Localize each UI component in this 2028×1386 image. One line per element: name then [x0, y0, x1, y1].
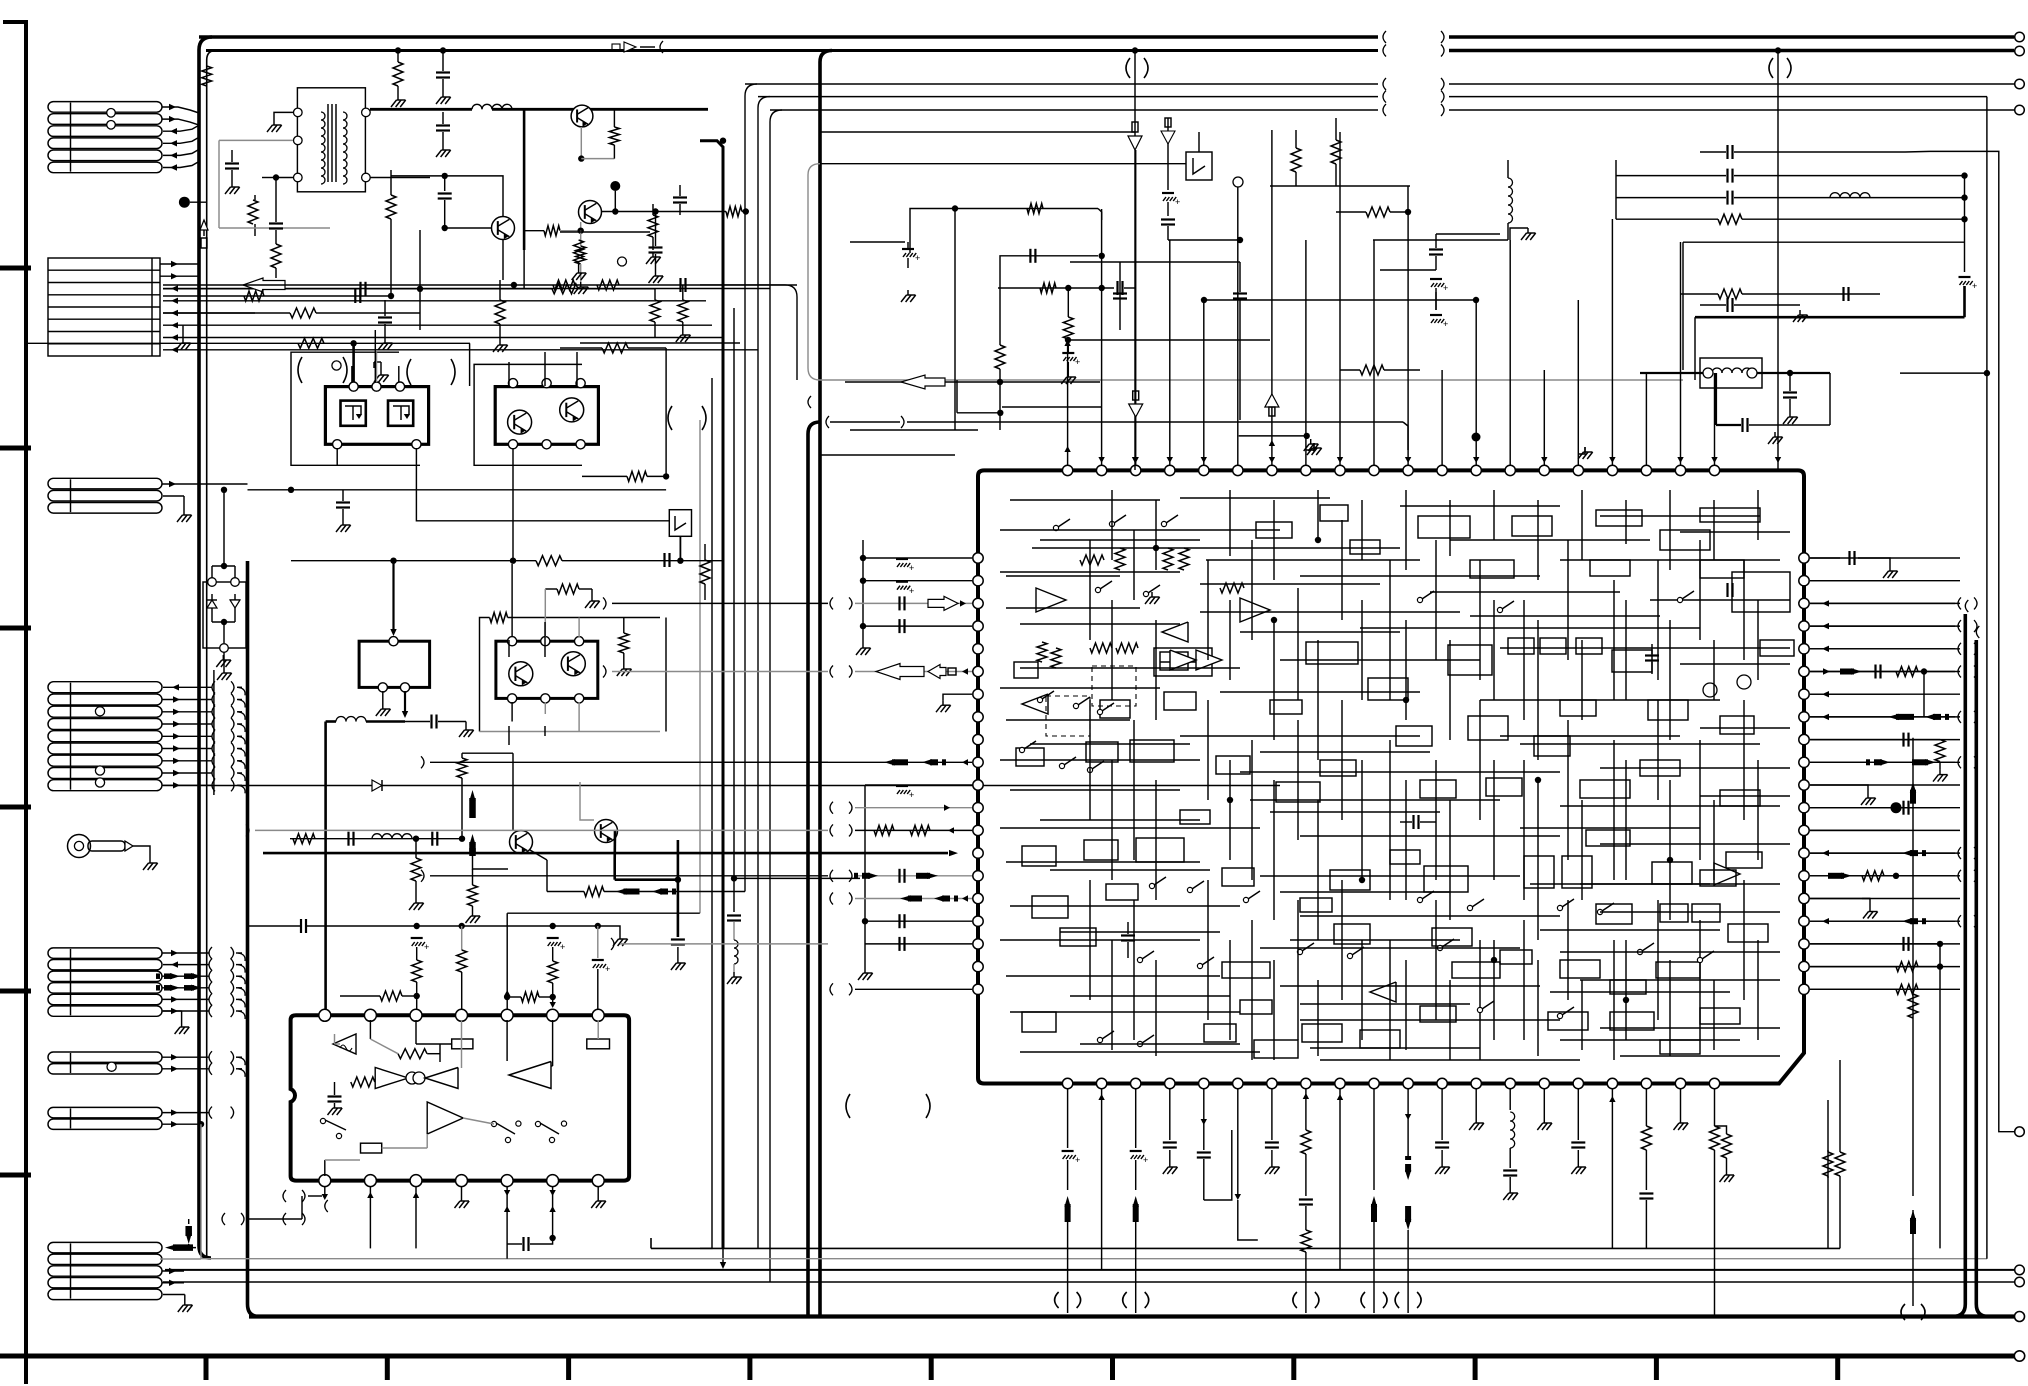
bottom ruler tick 3 [566, 1356, 571, 1380]
top mid v1408 [1407, 186, 1409, 212]
U1 internal wire h17 [1180, 735, 1420, 737]
CN4 wire 2 [162, 699, 212, 701]
U1 internal block 64 [1452, 962, 1500, 978]
U1 mesh wire v59 [1713, 980, 1715, 1050]
U2 bottom pin 5 [501, 1175, 513, 1187]
U1 internal block 10 [1306, 642, 1358, 664]
top bus V1 thick [199, 35, 1378, 39]
U1 switch x2 [1143, 591, 1148, 596]
top right xfmr box [1700, 358, 1762, 388]
block D pin b3 [575, 694, 584, 703]
U1 left pin row11 wire [865, 784, 972, 786]
U1 top pin 18 [1641, 465, 1651, 475]
U1 internal wire h45 [1620, 1055, 1780, 1057]
U2 switch 2 [491, 1121, 496, 1126]
top right v1830 [1829, 373, 1831, 425]
U1 switch 5 [1073, 703, 1078, 708]
U2 amp left [375, 1068, 408, 1089]
U1 left pin 16 [973, 893, 983, 903]
band wire h300 [1204, 299, 1476, 301]
U1 right pin 19 chain [1810, 966, 1940, 968]
U1 left pin 14 [973, 848, 983, 858]
U1 top pin 13 arrow [1473, 457, 1479, 463]
CN4 wire 8 cont [231, 767, 234, 779]
U1 switch 9 [1087, 767, 1092, 772]
U2 feed thick vertical [324, 722, 327, 1011]
wire v513 [512, 753, 514, 831]
U1 mesh wire v6 [1361, 500, 1363, 560]
U1 internal wire v12 [1613, 580, 1615, 700]
U2 bottom pin 1 [319, 1175, 331, 1187]
misc res v705 upper [700, 560, 710, 584]
U1 switch 21 [1437, 945, 1442, 950]
U1 internal wire h11 [1020, 667, 1240, 669]
U1 internal wire h9 [1360, 627, 1700, 629]
U1 mesh wire h23 [1520, 827, 1700, 829]
U1 dashed switch box 1 [1092, 666, 1136, 706]
right thick vertical 2 [1976, 640, 1988, 1317]
U1 bottom pin 2 wire [1101, 1089, 1103, 1110]
U1 bottom pin 18 wire [1645, 1089, 1647, 1110]
wire h343 [26, 342, 470, 344]
PS res R5 [609, 127, 619, 145]
bottom bus B [165, 1269, 2014, 1271]
U1 internal wire h12 [1280, 659, 1480, 661]
bottom bus C [163, 1281, 2014, 1283]
CN5 wire 4 cont [231, 982, 234, 994]
PS dot1 [417, 286, 423, 292]
left feed wire 2 [612, 671, 828, 673]
U1 mesh wire h3 [1400, 505, 1560, 507]
U1 res 1 [1080, 555, 1104, 565]
U1 top pin 10 [1369, 465, 1379, 475]
gnd 653 [652, 252, 654, 257]
U1 right pin 17 wire [1810, 920, 1960, 922]
U2 switch 1 [320, 1118, 325, 1123]
U1 junction dot 10 [1315, 537, 1321, 543]
CN2 wire 6 [163, 324, 712, 326]
bottom ruler tick 2 [385, 1356, 390, 1380]
U1 internal wire h25 [1000, 827, 1260, 829]
res h343 [298, 338, 324, 348]
PS res R4 vertical [386, 195, 396, 219]
CN6 wire 2 [162, 1068, 209, 1070]
U1 mesh wire v55 [1537, 960, 1539, 1056]
U1 internal wire v34 [1251, 920, 1253, 1060]
U1 mesh wire v29 [1713, 640, 1715, 700]
U1 mesh wire h8 [1680, 531, 1790, 533]
block B paren pair [668, 406, 672, 430]
U1 res 5 [1037, 642, 1047, 662]
svg-text:+: + [1075, 357, 1080, 367]
CN1 wire 3 [163, 125, 199, 131]
top mid v1778 [1777, 51, 1779, 471]
key jack inner [74, 841, 83, 850]
U1 top pin 10 wire [1373, 240, 1375, 465]
U1 left pin 9 [973, 734, 983, 744]
U1 internal block 34 [1486, 778, 1522, 796]
CN1 wire 5 [163, 149, 199, 155]
CN4 break column dashed [213, 670, 215, 795]
v1695 col [1694, 317, 1696, 380]
U1 bottom pin 19 chain [1680, 1110, 1682, 1118]
block B trans2 [560, 398, 584, 422]
U1 switch 22 [1637, 949, 1642, 954]
U1 internal wire h22 [1010, 789, 1180, 791]
PS coil inline [472, 104, 492, 115]
T1 primary coil [321, 112, 325, 120]
top bus S3 terminal [2015, 105, 2025, 115]
top bus S1 break left [1383, 78, 1386, 90]
U1 right pin 19 wire [1810, 966, 1960, 968]
CN4 circle 1 [95, 707, 104, 716]
block B pin2 up wire [544, 352, 546, 386]
wire h490 [248, 489, 667, 491]
U1 right pin 20 wire [1810, 988, 1960, 990]
block B pin6 [576, 440, 585, 449]
U1 internal block x18 [1610, 980, 1646, 994]
U1 right pin 15 wire [1810, 875, 1960, 877]
U2 wire f [552, 1020, 554, 1066]
U1 internal wire h4 [1206, 559, 1420, 561]
v1683 col [1682, 242, 1684, 370]
U1 right pin 16 [1799, 893, 1809, 903]
frame left tick 3 [0, 626, 31, 631]
U1 right pin 16 chain [1810, 898, 1870, 900]
U1 mesh wire h9 [1006, 575, 1120, 577]
U1 junction dot 7 [1359, 877, 1365, 883]
xfmr block C outer [359, 641, 430, 687]
wire h382 [845, 381, 1100, 383]
top bus V1 break right [1441, 31, 1444, 43]
U1 mesh wire v42 [1625, 760, 1627, 880]
U1 right pin 1 chain [1810, 557, 1840, 559]
U1 right pin 4 wire [1810, 625, 1960, 627]
top bus S1 [745, 83, 1378, 85]
U1 bottom pin 9 chain [1339, 1110, 1341, 1270]
U1 cap int1 [1121, 934, 1135, 936]
U1 internal wire v28 [1657, 700, 1659, 800]
x797 wire [700, 285, 797, 380]
top bus V2 right segment [1449, 49, 2014, 53]
bottom ruler tick 7 [1291, 1356, 1296, 1380]
spine x712 corner [700, 1236, 712, 1248]
PS cap C1 [231, 150, 233, 162]
U1 internal wire v24 [1479, 700, 1481, 820]
connector CN2 body [48, 258, 160, 356]
U1 mesh wire v60 [1757, 940, 1759, 1040]
top mid res v1296 [1291, 148, 1301, 172]
CN6 wire 1 cont [231, 1051, 234, 1063]
U1 mesh wire v9 [1493, 490, 1495, 540]
U1 internal block x12 [1320, 760, 1356, 776]
connector CN6 pills [48, 1052, 162, 1062]
CN5 wire 2 cont [231, 959, 234, 971]
PS cap C3 inline [359, 282, 361, 296]
relay block D body [496, 641, 598, 698]
U1 internal wire h10 [1500, 647, 1790, 649]
block B res right [602, 343, 628, 353]
frame left tick 6 [0, 1173, 31, 1178]
U1 top pin 7 [1267, 465, 1277, 475]
U1 internal wire h33 [1600, 911, 1780, 913]
U1 top pin 13 wire [1475, 300, 1477, 465]
Q4 base wire [473, 852, 509, 869]
U1 internal block 3 [1512, 516, 1552, 536]
U1 mesh wire v41 [1581, 800, 1583, 900]
speaker sym 2 [1186, 152, 1212, 180]
U1 left pin row6 open arrows [876, 664, 924, 680]
U1 right pin 20 chain [1810, 988, 1940, 990]
mid cap h839 [347, 832, 349, 846]
U1 top pin 2 arrow [1098, 457, 1104, 463]
U1 top pin 17 wire [1611, 219, 1613, 465]
U2 pin2 down [369, 1186, 371, 1248]
U1 right pin 6 wire [1810, 671, 1960, 673]
U1 switch 17 [1097, 1037, 1102, 1042]
block B pin2 [542, 379, 551, 388]
bottom bus A [651, 1247, 1840, 1249]
top bus V2 thick [206, 49, 1378, 52]
left col v865 gnd [864, 968, 866, 973]
block D pin t1 wire [511, 564, 513, 637]
U1 bottom pin 4 chain [1169, 1110, 1171, 1140]
T1 pin3 wire [276, 177, 293, 179]
CN3 ground stub [183, 496, 185, 510]
U1 mesh wire v47 [1155, 960, 1157, 1056]
U1 mesh wire h33 [1550, 991, 1730, 993]
CN2 wire 4 [163, 300, 706, 302]
U1 switch x5 [1677, 597, 1682, 602]
CN5 ground [181, 1022, 183, 1027]
band wire h455 [820, 454, 955, 456]
block A paren right [407, 359, 411, 385]
U1 mesh wire h29 [1290, 939, 1460, 941]
U1 mesh wire v10 [1537, 500, 1539, 580]
U1 internal block 48 [1432, 928, 1472, 946]
T1 ground wire [274, 112, 293, 120]
U1 right pin 10 wire [1810, 761, 1960, 763]
U1 mesh wire h11 [1430, 591, 1620, 593]
U1 right pin 13 chain [1810, 829, 1900, 831]
CN5 wire 5 [162, 998, 209, 1000]
mid cap2 h839 [431, 832, 433, 846]
U1 top pin 14 [1505, 465, 1515, 475]
right vertical 1987 [1986, 97, 1988, 1259]
U1 mesh wire h20 [1700, 727, 1790, 729]
T1 pin 2 [294, 136, 303, 145]
U1 bottom pin 16 [1573, 1078, 1583, 1088]
rail y721 cap [405, 721, 430, 723]
U1 internal wire v13 [1657, 560, 1659, 680]
block D trans2 [561, 652, 585, 676]
U1 right pin 6 [1799, 666, 1809, 676]
block A igbt2 [388, 401, 413, 426]
U1 left pin row2 wire [863, 580, 972, 582]
U1 res 3 [1163, 548, 1173, 570]
U1 switch 20 [1347, 953, 1352, 958]
U1 top pin 11 arrow [1405, 457, 1411, 463]
U1 mesh wire h18 [1260, 751, 1430, 753]
U1 top pin 19 arrow [1677, 457, 1683, 463]
U1 internal block 19 [1396, 726, 1432, 746]
U1 left pin 17 [973, 916, 983, 926]
U1 switch x9 [1557, 1013, 1562, 1018]
chain x462 [461, 926, 463, 950]
U1 internal block 36 [1084, 840, 1118, 860]
key jack outer [68, 835, 91, 858]
U1 bottom pin 14 chain [1510, 1112, 1515, 1121]
U1 mesh wire h5 [1040, 539, 1200, 541]
U1 left pin row15 wire [830, 870, 833, 882]
relay block B body [495, 387, 598, 445]
bottom ruler tick 6 [1110, 1356, 1115, 1380]
U2 inner wire i [382, 1147, 428, 1149]
U1 left pin row4 wire [863, 625, 972, 627]
U1 internal wire h44 [1320, 1059, 1580, 1061]
band wire h340b [1068, 339, 1270, 341]
top bus S1 terminal [2015, 79, 2025, 89]
U1 mesh wire h24 [1700, 795, 1790, 797]
block C pin b2 arrow [404, 691, 406, 712]
U1 internal block 33 [1420, 780, 1456, 798]
T1 pin 3 [294, 173, 303, 182]
top mid v1135 [1134, 51, 1136, 133]
U1 internal block 12 [1448, 645, 1492, 675]
U1 internal wire v9 [1479, 560, 1481, 680]
PS top resistor R9 [202, 66, 212, 86]
U2 pin1 wire left [246, 1218, 302, 1220]
U1 bottom pin 15 [1539, 1078, 1549, 1088]
connector CN3 pills [48, 478, 162, 489]
U1 left pin 11 [973, 780, 983, 790]
res h997 [504, 994, 510, 1000]
cap v678 [671, 938, 685, 940]
bus dots [1132, 47, 1138, 53]
IC U2 outline [291, 1015, 629, 1180]
U2 top pin 6 [547, 1009, 559, 1021]
U1 right pin 8 chain [1810, 716, 1955, 718]
U1 right pin 15 chain [1810, 875, 1955, 877]
connector CN1 pills [48, 102, 162, 113]
U2 inner wire j [463, 1118, 494, 1124]
U2 top pin 2 [364, 1009, 376, 1021]
U1 top pin 15 wire [1543, 370, 1545, 465]
block C pin b1 gnd [382, 691, 384, 704]
bottom parens label [846, 1094, 850, 1118]
T1 out wire right [492, 108, 708, 111]
U1 internal wire v40 [1523, 920, 1525, 1040]
U1 bottom pin 11 wire [1407, 1089, 1409, 1110]
PS wire h290 [163, 288, 360, 290]
band wire h240c [1168, 239, 1240, 241]
PS top gnd1 [397, 95, 399, 100]
mid coil h839 [372, 834, 382, 839]
U1 internal block 32 [1216, 756, 1250, 774]
U2 bottom pin 4 [456, 1175, 468, 1187]
PS cap chain 444 [444, 176, 446, 191]
U1 internal wire v15 [1743, 560, 1745, 660]
U1 mesh wire v49 [1273, 960, 1275, 1060]
U1 bottom pin 12 wire [1441, 1089, 1443, 1110]
U1 internal block 22 [1648, 700, 1688, 720]
U1 switch x1 [1095, 587, 1100, 592]
top right gnd h1775 [1774, 432, 1776, 437]
top bus S3 [770, 109, 1378, 111]
block B pin3 up wire [576, 352, 578, 386]
top bus V2 break right [1441, 45, 1444, 57]
CN2 wire 5 [163, 312, 255, 314]
U1 bottom pin 2 chain [1101, 1110, 1103, 1270]
U1 internal wire h23 [1250, 799, 1500, 801]
U1 bottom pin 6 chain [1237, 1110, 1239, 1196]
U2 top pin 3 [410, 1009, 422, 1021]
top right xfmr wires [1640, 372, 1703, 374]
opto block A body [325, 387, 428, 445]
U1 top pin 16 [1573, 465, 1583, 475]
cap 1730 col2 [1726, 169, 1728, 183]
U1 bottom pin 17 wire [1611, 1089, 1613, 1110]
right module frame thick x820 [820, 51, 832, 1317]
left feed wire 6 [620, 943, 828, 945]
U1 right pin 11 [1799, 780, 1809, 790]
U1 top pin 12 [1437, 465, 1447, 475]
CN4 circle 3 [95, 778, 104, 787]
svg-text:+: + [605, 964, 610, 974]
PS res R3 [290, 308, 316, 318]
diode pack ground stub [223, 652, 225, 668]
U1 right pin 5 chain [1810, 648, 1955, 650]
PS res R8 v [650, 300, 660, 322]
PS small arrow sym [612, 44, 620, 51]
U1 right pin 4 [1799, 621, 1809, 631]
U1 mesh wire v11 [1581, 490, 1583, 560]
U1 right pin 20 [1799, 984, 1809, 994]
U1 internal wire h24 [1560, 805, 1780, 807]
U1 switch 7 [1019, 747, 1024, 752]
wire h413 [957, 412, 1000, 414]
U1 right pin 1 [1799, 553, 1809, 563]
U1 internal wire h35 [1260, 947, 1520, 949]
U1 bottom pin 14 wire [1509, 1089, 1511, 1110]
misc v1168 chain [1167, 118, 1169, 190]
U1 left pin row14 thick wire [263, 852, 948, 855]
T1 pin 4 [362, 108, 371, 117]
PS trans Q1 wires [391, 176, 503, 217]
U1 mesh wire v45 [1757, 760, 1759, 860]
top bus S1 break right [1441, 78, 1444, 90]
svg-text:+: + [1443, 283, 1448, 293]
res v998 [995, 345, 1005, 369]
Q5 base gray [580, 782, 594, 820]
U1 right pin 3 chain [1810, 602, 1955, 604]
U1 mesh wire v2 [1155, 500, 1157, 570]
U1 internal block 37 [1136, 838, 1184, 862]
block D pin t3 [575, 637, 584, 646]
T1 pin5 wire [370, 177, 430, 179]
thick rail y721 [326, 720, 336, 723]
CN4 wire 7 [162, 760, 212, 762]
U1 top pin 5 [1199, 465, 1209, 475]
v1616 col [1615, 160, 1617, 219]
U1 internal block 60 [1610, 1012, 1654, 1030]
Q5 thick path [613, 831, 616, 860]
mid res v473 [472, 869, 474, 885]
U1 internal wire v2 [1133, 530, 1135, 600]
U1 bottom pin 11 chain [1407, 1110, 1409, 1160]
CN6 wire 1 [162, 1056, 209, 1058]
top bus S2 right segment [1449, 96, 1987, 98]
